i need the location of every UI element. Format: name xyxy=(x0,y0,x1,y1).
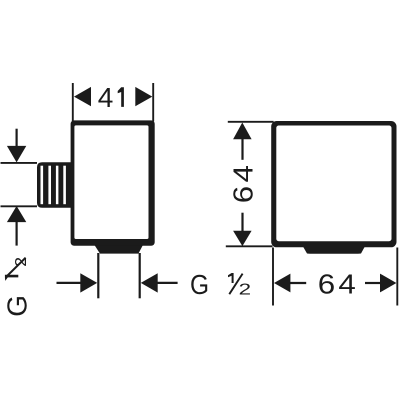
dim 64 bottom left arrow tail xyxy=(290,282,306,284)
dim 41 right arrow xyxy=(135,87,152,106)
outlet pipe right line xyxy=(139,253,141,298)
G1/2 side dim top arrow xyxy=(7,146,26,163)
dim 64 vertical top arrow tail xyxy=(241,139,243,160)
threaded stub white gaps xyxy=(41,166,66,205)
dim 64 bottom left arrow xyxy=(274,274,290,293)
svg-text:6: 6 xyxy=(318,269,335,300)
dim 64 vertical top arrow xyxy=(233,123,252,140)
front view square inner xyxy=(276,126,391,242)
dim 64 vertical bottom arrow tail xyxy=(241,213,243,232)
G1/2 side dim bottom extension line xyxy=(1,205,38,207)
dim 64 bottom right arrow tail xyxy=(365,282,381,284)
dim 64 vertical bottom arrow xyxy=(233,231,252,246)
front view bottom stub xyxy=(302,246,365,254)
side view body outer xyxy=(71,120,155,245)
svg-text:4: 4 xyxy=(338,269,355,300)
G1/2 side rotated label digit 1 xyxy=(5,275,18,281)
G1/2 bottom label fraction slash xyxy=(229,274,242,295)
G1/2 side dim top extension line xyxy=(1,162,38,164)
G1/2 bottom dim right arrow tail xyxy=(157,282,178,284)
dim 41 left extension line xyxy=(72,83,74,122)
dim 64 bottom label xyxy=(318,269,356,300)
dim 64 vertical rotated label xyxy=(228,165,259,203)
dim 64 vertical top extension line xyxy=(228,121,274,123)
G1/2 side dim top arrow tail xyxy=(16,129,18,147)
G1/2 bottom dim left arrow tail xyxy=(57,282,82,284)
threaded stub G1/2 outer xyxy=(37,162,73,208)
svg-text:G: G xyxy=(190,269,209,301)
svg-text:4: 4 xyxy=(228,165,259,182)
G1/2 bottom dim left arrow xyxy=(80,273,97,292)
side view body inner face xyxy=(74,125,148,239)
dim 64 vertical bottom extension line xyxy=(226,245,273,247)
dim 64 bottom left extension line xyxy=(272,248,274,306)
bottom outlet stub (side view) xyxy=(95,245,143,253)
dim 64 bottom right arrow xyxy=(380,274,396,293)
G1/2 side dim bottom arrow xyxy=(7,206,26,222)
dim 41 label xyxy=(98,82,124,113)
svg-text:4: 4 xyxy=(98,82,114,113)
dim 41 right extension line xyxy=(152,83,154,122)
svg-text:G: G xyxy=(1,295,32,317)
svg-text:6: 6 xyxy=(228,186,259,203)
outlet pipe left line xyxy=(97,253,99,298)
G1/2 side rotated label fraction slash xyxy=(6,258,25,277)
dim 64 bottom right extension line xyxy=(396,248,398,306)
dim 41 left arrow xyxy=(74,87,91,106)
G1/2 bottom dim right arrow xyxy=(141,273,158,292)
G1/2 side dim bottom arrow tail xyxy=(16,222,18,246)
svg-text:2: 2 xyxy=(239,280,251,298)
front view square outer xyxy=(271,121,396,247)
G1/2 bottom label xyxy=(190,269,251,301)
G1/2 side rotated label xyxy=(1,257,32,317)
